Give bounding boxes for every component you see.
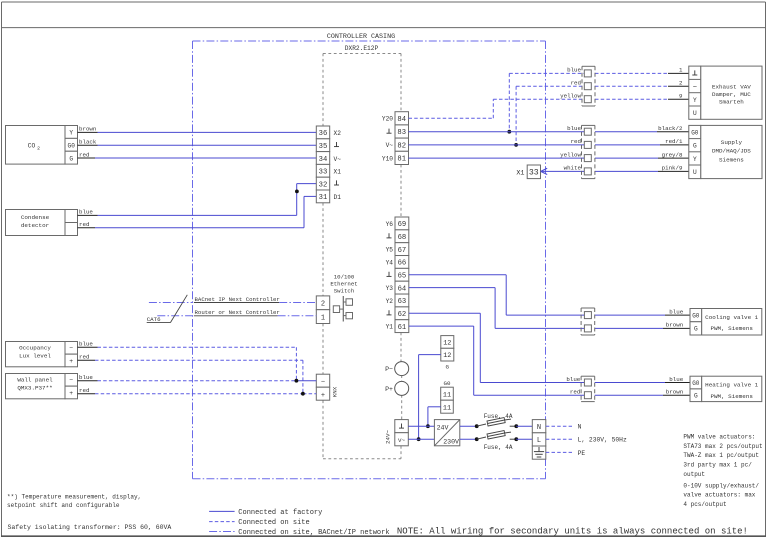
svg-text:brown: brown bbox=[666, 389, 683, 396]
svg-text:+: + bbox=[69, 358, 73, 365]
svg-text:U: U bbox=[693, 169, 697, 176]
legend connected at factory bbox=[209, 509, 322, 517]
svg-text:63: 63 bbox=[398, 298, 407, 306]
svg-text:Connected on site, BACnet/IP n: Connected on site, BACnet/IP network bbox=[238, 529, 389, 537]
wire exhaust red row (dashed) bbox=[516, 80, 689, 145]
svg-text:Smarteh: Smarteh bbox=[719, 98, 744, 105]
svg-text:65: 65 bbox=[398, 273, 407, 281]
svg-text:DXR2.E12P: DXR2.E12P bbox=[345, 45, 379, 52]
svg-text:Switch: Switch bbox=[334, 288, 354, 295]
svg-text:Y3: Y3 bbox=[386, 285, 394, 292]
svg-text:blue: blue bbox=[79, 341, 93, 348]
svg-text:blue: blue bbox=[566, 376, 580, 383]
svg-text:Siemens: Siemens bbox=[719, 156, 744, 163]
label 10/100 Ethernet Switch bbox=[330, 274, 357, 295]
svg-text:Y10: Y10 bbox=[382, 155, 393, 162]
svg-text:PWM, Siemens: PWM, Siemens bbox=[710, 393, 753, 400]
svg-text:CONTROLLER CASING: CONTROLLER CASING bbox=[327, 33, 395, 41]
wire mains L (dashed) bbox=[546, 437, 627, 444]
wire mains N (dashed) bbox=[546, 424, 582, 431]
pressure port P- bbox=[385, 362, 409, 376]
svg-text:67: 67 bbox=[398, 247, 407, 255]
svg-text:brown: brown bbox=[79, 126, 96, 133]
pin label perp exhaust top cell bbox=[694, 70, 696, 75]
wire CO2 black -> terminal 35 bbox=[78, 139, 317, 146]
junction dot on condense blue riser bbox=[295, 190, 299, 194]
svg-text:Fuse, 4A: Fuse, 4A bbox=[484, 444, 513, 451]
svg-text:31: 31 bbox=[319, 194, 328, 202]
svg-text:X1: X1 bbox=[516, 169, 524, 177]
svg-text:33: 33 bbox=[319, 169, 328, 177]
svg-text:X1: X1 bbox=[334, 169, 342, 176]
pressure port P+ bbox=[385, 381, 409, 395]
wire transformer to fuse N bbox=[460, 425, 477, 427]
wire occupancy blue (dashed, on site) bbox=[78, 341, 297, 381]
svg-text:+: + bbox=[321, 392, 325, 400]
svg-text:G0: G0 bbox=[692, 380, 700, 387]
svg-text:grey/8: grey/8 bbox=[662, 151, 683, 158]
svg-text:−: − bbox=[69, 377, 73, 384]
svg-text:TWA-Z max 1 pc/output: TWA-Z max 1 pc/output bbox=[683, 452, 759, 459]
svg-text:230V: 230V bbox=[443, 438, 459, 445]
pin label perp 65 bbox=[388, 272, 390, 277]
terminal strip 24V~ bbox=[385, 420, 409, 446]
svg-text:Y: Y bbox=[69, 130, 73, 137]
svg-text:Heating valve 1: Heating valve 1 bbox=[705, 382, 758, 389]
wire 11 G0 -> earth junction bbox=[428, 407, 441, 426]
svg-text:V~: V~ bbox=[334, 156, 342, 163]
wire 82 -> supply red row bbox=[409, 138, 689, 145]
svg-text:CAT6: CAT6 bbox=[147, 316, 161, 323]
wire white row with arrow to X1 33 bbox=[541, 165, 689, 175]
wire 64 -> cooling brown row bbox=[409, 288, 690, 329]
wire 81 -> supply yellow/grey row bbox=[409, 151, 689, 158]
svg-text:PWM, Siemens: PWM, Siemens bbox=[710, 325, 753, 332]
occupancy / lux level box bbox=[6, 342, 78, 367]
svg-text:red: red bbox=[571, 138, 581, 145]
terminal X1 33 reference bbox=[516, 165, 540, 179]
legend connected on site BACnet/IP bbox=[209, 529, 389, 537]
terminal strip Y20..Y10 terminals 84-81 bbox=[382, 112, 409, 165]
svg-text:34: 34 bbox=[319, 156, 328, 164]
svg-text:red/1: red/1 bbox=[665, 138, 683, 145]
svg-text:66: 66 bbox=[398, 260, 407, 268]
svg-text:Y: Y bbox=[693, 97, 697, 104]
wire Router or Next Controller (dash-dot) bbox=[157, 309, 316, 316]
wire wall panel red -> KNX plus bbox=[78, 387, 317, 394]
svg-text:U: U bbox=[693, 110, 697, 117]
svg-text:33: 33 bbox=[529, 169, 539, 178]
svg-text:10/100: 10/100 bbox=[334, 274, 355, 281]
pin label perp 68 bbox=[388, 233, 390, 238]
svg-text:black/2: black/2 bbox=[658, 125, 683, 132]
cooling valve 1 box bbox=[690, 309, 762, 336]
junction dot earth wire / 11 G0 bbox=[426, 424, 430, 428]
svg-text:black: black bbox=[79, 139, 97, 146]
svg-text:X2: X2 bbox=[334, 130, 342, 137]
wire 84 Y20 -> exhaust yellow (dashed) bbox=[409, 99, 494, 118]
wire 83 -> supply blue/black row bbox=[409, 125, 689, 132]
svg-text:N: N bbox=[578, 424, 582, 431]
earth symbol in PE cell bbox=[538, 447, 540, 452]
svg-text:KNX: KNX bbox=[332, 386, 339, 397]
wire mains PE (dashed) bbox=[546, 450, 586, 457]
pin label perp 24V top cell bbox=[401, 424, 403, 429]
ethernet switch icon bbox=[333, 296, 352, 322]
svg-text:blue: blue bbox=[79, 374, 93, 381]
connector exhaust VAV plug bbox=[582, 66, 595, 106]
supply DMD/HAQ/JDS box bbox=[689, 125, 762, 178]
svg-text:P+: P+ bbox=[385, 386, 393, 393]
svg-text:STA73 max 2 pcs/output: STA73 max 2 pcs/output bbox=[683, 443, 762, 450]
svg-text:Exhaust VAV: Exhaust VAV bbox=[712, 83, 751, 90]
svg-text:G: G bbox=[446, 364, 450, 371]
terminal strip ethernet ports 2/1 bbox=[316, 296, 329, 324]
svg-text:Cooling valve 1: Cooling valve 1 bbox=[705, 314, 758, 321]
heating valve 1 box bbox=[690, 376, 762, 401]
svg-text:red: red bbox=[79, 151, 89, 158]
svg-text:L, 230V, 50Hz: L, 230V, 50Hz bbox=[578, 437, 627, 444]
fuse 4A lower bbox=[475, 431, 518, 442]
svg-text:G0: G0 bbox=[68, 143, 76, 150]
svg-text:Fuse, 4A: Fuse, 4A bbox=[484, 413, 513, 420]
condense detector box bbox=[6, 210, 78, 236]
svg-text:yellow: yellow bbox=[560, 151, 581, 158]
svg-text:red: red bbox=[571, 80, 581, 87]
svg-text:Connected at factory: Connected at factory bbox=[238, 509, 322, 517]
wire 65 -> cooling blue row bbox=[409, 275, 690, 316]
svg-text:61: 61 bbox=[398, 324, 407, 332]
svg-text:Connected on site: Connected on site bbox=[238, 519, 309, 527]
svg-text:output: output bbox=[683, 471, 705, 478]
svg-text:pink/9: pink/9 bbox=[662, 165, 683, 172]
svg-text:G: G bbox=[693, 143, 697, 150]
label CAT6 with cable slash bbox=[147, 295, 188, 323]
svg-text:2: 2 bbox=[321, 301, 325, 309]
svg-text:**) Temperature measurement, d: **) Temperature measurement, display, bbox=[7, 493, 141, 500]
svg-text:4 pcs/output: 4 pcs/output bbox=[683, 501, 726, 508]
svg-text:12: 12 bbox=[443, 352, 451, 360]
junction dot wall red / occupancy red bbox=[301, 392, 305, 396]
svg-text:11: 11 bbox=[443, 405, 451, 413]
svg-text:blue: blue bbox=[79, 209, 93, 216]
svg-text:brown: brown bbox=[666, 322, 683, 329]
svg-text:red: red bbox=[79, 354, 89, 361]
svg-text:35: 35 bbox=[319, 143, 328, 151]
svg-text:blue: blue bbox=[669, 308, 683, 315]
controller DXR2.E12P enclosure (gray dashed) bbox=[323, 54, 402, 459]
terminal strip KNX -/+ bbox=[316, 374, 338, 400]
svg-text:−: − bbox=[69, 345, 73, 352]
svg-text:Lux level: Lux level bbox=[19, 352, 51, 359]
terminal strip Y6..Y1 terminals 69-61 bbox=[386, 217, 409, 333]
svg-text:83: 83 bbox=[397, 129, 406, 137]
svg-text:~: ~ bbox=[693, 84, 697, 92]
pin label perp 83 bbox=[388, 129, 390, 134]
svg-text:Y5: Y5 bbox=[386, 247, 394, 254]
transformer 24V/230V bbox=[434, 420, 459, 446]
svg-text:DMD/HAQ/JDS: DMD/HAQ/JDS bbox=[712, 148, 751, 155]
svg-text:69: 69 bbox=[398, 221, 407, 229]
svg-text:24V: 24V bbox=[437, 425, 449, 432]
connector heating valve plug bbox=[581, 376, 595, 401]
svg-text:blue: blue bbox=[567, 67, 581, 74]
svg-text:68: 68 bbox=[398, 234, 407, 242]
svg-text:red: red bbox=[570, 389, 580, 396]
svg-text:36: 36 bbox=[319, 130, 328, 138]
svg-text:−: − bbox=[321, 379, 325, 387]
note PWM valve actuators bbox=[683, 434, 762, 508]
svg-text:2: 2 bbox=[37, 146, 40, 152]
svg-text:12: 12 bbox=[443, 340, 451, 348]
svg-text:P−: P− bbox=[385, 366, 393, 373]
svg-text:Condense: Condense bbox=[21, 214, 50, 221]
terminal block 12/12 G bbox=[441, 336, 454, 371]
svg-text:64: 64 bbox=[398, 285, 407, 293]
svg-text:Safety isolating transformer:: Safety isolating transformer: PSS 60, 60… bbox=[8, 524, 172, 531]
svg-text:G: G bbox=[694, 326, 698, 333]
svg-text:Ethernet: Ethernet bbox=[330, 281, 357, 288]
wire 24V bottom to transformer bbox=[408, 438, 434, 440]
CO2 sensor box bbox=[6, 126, 78, 165]
svg-text:PE: PE bbox=[578, 450, 586, 457]
svg-text:Supply: Supply bbox=[721, 139, 743, 146]
svg-text:Y2: Y2 bbox=[386, 298, 394, 305]
svg-text:D1: D1 bbox=[334, 194, 342, 201]
svg-text:3rd party max 1 pc/: 3rd party max 1 pc/ bbox=[683, 462, 752, 469]
wire condense blue -> terminal 32 bbox=[78, 184, 317, 216]
terminal block 11/11 G0 bbox=[441, 380, 454, 413]
junction dot 83 / exhaust blue bbox=[507, 130, 511, 134]
svg-text:0-10V supply/exhaust/: 0-10V supply/exhaust/ bbox=[683, 482, 759, 489]
terminal strip N/L/PE bbox=[532, 420, 546, 460]
svg-text:G0: G0 bbox=[692, 312, 700, 319]
svg-text:BACnet IP Next Controller: BACnet IP Next Controller bbox=[195, 296, 280, 303]
svg-text:G0: G0 bbox=[691, 129, 699, 136]
svg-text:G: G bbox=[69, 155, 73, 162]
svg-text:G0: G0 bbox=[444, 380, 451, 387]
svg-text:L: L bbox=[537, 437, 541, 445]
svg-text:Y20: Y20 bbox=[382, 116, 393, 123]
svg-text:Y: Y bbox=[693, 156, 697, 163]
svg-text:24V~: 24V~ bbox=[385, 430, 392, 444]
wire transformer to fuse L bbox=[460, 438, 477, 440]
svg-text:32: 32 bbox=[319, 181, 328, 189]
wire fuse to L bbox=[516, 438, 532, 440]
wire 24V top to transformer bbox=[408, 425, 434, 427]
svg-text:84: 84 bbox=[397, 116, 406, 124]
junction dot wall blue / occupancy blue bbox=[295, 379, 299, 383]
wire condense red -> terminal 31 bbox=[78, 196, 317, 228]
svg-text:detector: detector bbox=[21, 222, 49, 229]
svg-text:Y4: Y4 bbox=[386, 260, 394, 267]
svg-text:Damper, MUC: Damper, MUC bbox=[712, 91, 751, 98]
pin label perp 62 bbox=[388, 310, 390, 315]
pin label perp 35 bbox=[336, 142, 338, 147]
controller casing enclosure (dash-dot) bbox=[193, 41, 546, 479]
junction dot V~ / 12 G bbox=[417, 437, 421, 441]
connector cooling valve plug bbox=[581, 308, 595, 335]
svg-text:Y6: Y6 bbox=[386, 221, 394, 228]
svg-text:blue: blue bbox=[669, 376, 683, 383]
svg-text:1: 1 bbox=[679, 67, 683, 74]
wire 12 G -> V~ junction bbox=[419, 355, 441, 440]
svg-text:Y1: Y1 bbox=[386, 324, 394, 331]
terminal strip X2/X1 terminals 36-31 bbox=[316, 126, 341, 203]
svg-text:2: 2 bbox=[679, 80, 683, 87]
svg-text:Occupancy: Occupancy bbox=[19, 344, 51, 351]
svg-text:NOTE: All wiring for secondary: NOTE: All wiring for secondary units is … bbox=[397, 526, 748, 536]
svg-text:11: 11 bbox=[443, 392, 451, 400]
svg-text:valve actuators: max: valve actuators: max bbox=[683, 492, 755, 499]
wire CO2 red -> terminal 34 bbox=[78, 151, 317, 158]
svg-text:CO: CO bbox=[28, 142, 36, 149]
wire fuse to N bbox=[516, 425, 532, 427]
wire BACnet IP Next Controller (dash-dot) bbox=[149, 296, 316, 303]
wire wall panel blue -> KNX minus bbox=[78, 374, 317, 381]
wire CO2 brown -> terminal 36 bbox=[78, 126, 317, 133]
svg-text:1: 1 bbox=[321, 314, 325, 322]
svg-text:81: 81 bbox=[397, 156, 406, 164]
svg-text:white: white bbox=[564, 165, 582, 172]
svg-text:Router or Next Controller: Router or Next Controller bbox=[195, 309, 280, 316]
wire occupancy red (dashed) bbox=[78, 354, 303, 394]
svg-text:+: + bbox=[69, 390, 73, 397]
svg-text:QMX3.P37**: QMX3.P37** bbox=[17, 384, 52, 391]
svg-text:G: G bbox=[694, 393, 698, 400]
exhaust VAV damper box bbox=[689, 66, 762, 119]
svg-text:setpoint shift and configurabl: setpoint shift and configurable bbox=[7, 502, 120, 509]
svg-text:82: 82 bbox=[397, 142, 406, 150]
svg-text:V~: V~ bbox=[398, 437, 405, 444]
wire 61 -> heating brown row bbox=[409, 326, 690, 395]
svg-text:red: red bbox=[79, 387, 89, 394]
svg-text:yellow: yellow bbox=[560, 93, 581, 100]
pin label perp 32 bbox=[336, 180, 338, 185]
wire exhaust yellow row (dashed) bbox=[493, 93, 689, 100]
svg-text:blue: blue bbox=[567, 125, 581, 132]
svg-text:9: 9 bbox=[679, 93, 683, 100]
fuse 4A upper bbox=[475, 418, 518, 429]
wire exhaust blue row (dashed) bbox=[509, 67, 689, 132]
svg-text:N: N bbox=[537, 424, 541, 432]
wire 62 -> heating blue row bbox=[409, 313, 690, 383]
connector supply plug bbox=[582, 125, 595, 178]
legend connected on site bbox=[209, 519, 310, 527]
note temperature measurement bbox=[7, 493, 141, 509]
junction dot 82 / exhaust red bbox=[514, 143, 518, 147]
svg-text:Wall panel: Wall panel bbox=[17, 376, 53, 383]
svg-text:red: red bbox=[79, 221, 89, 228]
svg-text:PWM valve actuators:: PWM valve actuators: bbox=[683, 434, 755, 441]
svg-text:V~: V~ bbox=[386, 142, 394, 149]
wall panel QMX3.P37 box bbox=[6, 374, 78, 399]
svg-text:62: 62 bbox=[398, 311, 407, 319]
